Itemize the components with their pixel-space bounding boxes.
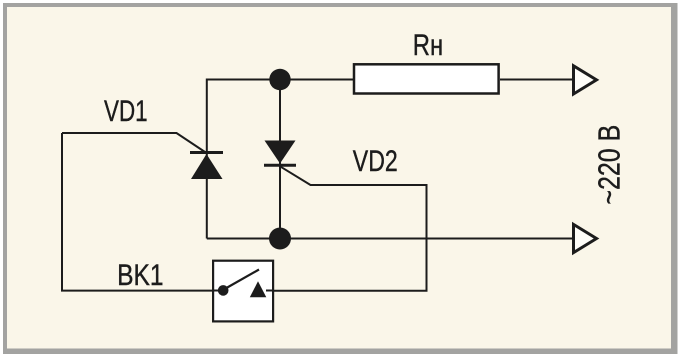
svg-text:Rн: Rн <box>413 29 443 62</box>
svg-text:~220 В: ~220 В <box>592 125 626 205</box>
svg-text:BK1: BK1 <box>117 258 163 292</box>
svg-text:VD1: VD1 <box>104 94 148 128</box>
svg-text:VD2: VD2 <box>353 144 398 178</box>
